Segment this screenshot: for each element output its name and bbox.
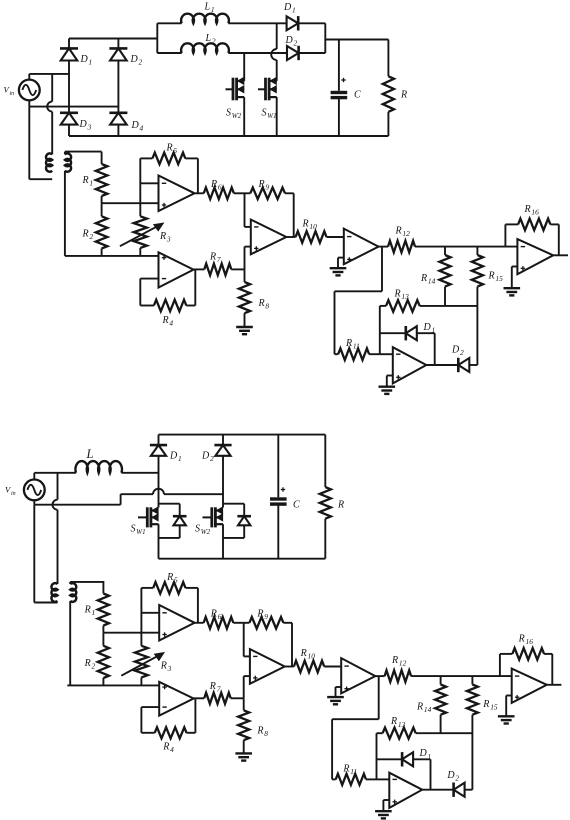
AC source Vin (top circuit) — [19, 80, 40, 101]
label R14 (top) — [420, 273, 436, 286]
wire U2 inverting input (top) — [140, 278, 158, 280]
arrow of R3 (top) — [120, 223, 163, 246]
resistor R4 (bottom) — [141, 699, 195, 739]
diode D2 precision rectifier (top) — [426, 358, 477, 372]
MOSFET Sw1 (top) — [258, 23, 277, 136]
svg-text:R: R — [400, 90, 407, 101]
op-amp U1 (top) — [159, 176, 195, 212]
wire source down to primary (bottom) — [34, 505, 57, 603]
op-amp U4 (top) — [344, 229, 379, 265]
label R8 (bottom) — [256, 725, 268, 738]
label D1 rectifier (bottom) — [419, 748, 432, 761]
label Vin (top) — [4, 85, 15, 98]
potentiometer R3 (top) — [134, 216, 147, 256]
wire feedback/wiper vertical (bottom) — [140, 588, 142, 646]
diode D1 precision rectifier (bottom) — [377, 752, 431, 790]
wire bridge top rail (top) — [69, 38, 157, 40]
op-amp U3 (top) — [251, 220, 286, 255]
resistor R7 (bottom) — [194, 693, 244, 704]
label R2 (bottom) — [84, 658, 96, 671]
wire R13/D1 left vertical (top) — [379, 306, 381, 354]
wire R6 junction down to U3 minus (bottom) — [244, 623, 250, 657]
MOSFET Sw2 (bottom) — [203, 507, 224, 559]
ground under U6 (bottom) — [375, 811, 392, 818]
label D2 rectifier (bottom) — [446, 770, 459, 783]
resistor R1 (bottom) — [98, 581, 109, 633]
resistor R6 (top) — [195, 188, 245, 200]
label D4 bridge — [131, 120, 144, 133]
resistor R6 (bottom) — [195, 617, 244, 629]
label R load (top) — [400, 90, 407, 101]
wire U6 minus input (top) — [380, 353, 393, 355]
label R4 (bottom) — [162, 742, 174, 755]
label Sw2 (top) — [226, 108, 242, 121]
bottom rail (top circuit) — [69, 135, 388, 137]
body diode of Sw2 (bottom) — [223, 504, 251, 538]
resistor R7 (top) — [194, 264, 245, 276]
label R12 (top) — [395, 226, 411, 239]
wire feedback/wiper vertical (top) — [139, 158, 141, 216]
body diode of Sw1 (bottom) — [159, 504, 187, 538]
wire U5 output (bottom) — [547, 684, 562, 686]
resistor R11 (bottom) — [332, 774, 376, 785]
op-amp U5 (top) — [517, 239, 553, 274]
svg-text:C: C — [293, 500, 300, 511]
wire U6 minus input (bottom) — [377, 778, 390, 780]
wire to transformer primary bottom (top) — [29, 178, 52, 180]
op-amp U1 (bottom) — [159, 605, 194, 641]
diode D1 (bottom power) — [150, 435, 167, 508]
wire U3 plus input (top) — [245, 247, 251, 270]
label R9 (top) — [258, 179, 270, 192]
label Sw1 (bottom) — [131, 524, 146, 537]
ground under R8 (top) — [236, 327, 253, 334]
capacitor C (bottom) — [270, 435, 287, 559]
label R6 (bottom) — [210, 609, 222, 622]
ground under U4 (top) — [330, 268, 347, 275]
resistor R10 (bottom) — [285, 661, 342, 673]
wire U3 plus input (bottom) — [244, 676, 250, 698]
resistor R10 (top) — [286, 231, 344, 243]
MOSFET Sw2 (top) — [226, 53, 245, 136]
resistor R13 (top) — [380, 300, 478, 312]
label D2 (bottom power) — [201, 451, 214, 464]
label Vin (bottom) — [5, 485, 16, 498]
wire secondary bottom to node B (bottom) — [69, 601, 71, 685]
wire node A (top) — [102, 202, 159, 204]
resistor R16 (bottom) — [500, 648, 552, 685]
label L (bottom) — [86, 447, 94, 461]
label D1 output (top) — [283, 2, 296, 15]
label D3 bridge — [79, 119, 92, 132]
resistor R12 (bottom) — [375, 670, 511, 682]
resistor R15 (top) — [472, 247, 483, 365]
label L1 — [204, 2, 215, 15]
label R7 (bottom) — [209, 681, 221, 694]
wire source top (bottom) — [34, 473, 76, 480]
transformer primary winding (top) — [46, 153, 52, 171]
potentiometer R3 (bottom) — [135, 646, 148, 686]
label R7 (top) — [209, 252, 221, 265]
wire U6 plus to ground (bottom) — [383, 800, 389, 811]
ground under U4 (bottom) — [327, 697, 344, 704]
wire U1 inverting input (bottom) — [141, 612, 159, 614]
resistor R11 (top) — [335, 348, 380, 360]
label Sw1 (top) — [262, 108, 277, 121]
wire U5 plus to ground (bottom) — [506, 696, 512, 717]
wire R6 junction down to U3 minus (top) — [245, 193, 251, 227]
resistor R9 (top) — [245, 188, 294, 238]
label R2 (top) — [82, 229, 94, 242]
label D2 output (top) — [285, 35, 298, 48]
wire phase to Sw2 leg with hop (bottom) — [121, 489, 223, 494]
resistor R8 (top) — [239, 269, 250, 327]
resistor R8 (bottom) — [238, 698, 249, 753]
label R11 (bottom) — [342, 764, 357, 777]
diode D2 bridge — [109, 39, 127, 113]
label + of C (top) — [341, 78, 345, 82]
diode D1 bridge — [60, 39, 78, 113]
wire jog up to phase node (bottom) — [120, 494, 122, 505]
label R15 (top) — [488, 271, 504, 284]
diode D2 output (top) — [287, 46, 325, 60]
ground under U5 (bottom) — [498, 716, 515, 723]
label R5 (top) — [166, 143, 178, 156]
wire R13/D1 left vertical (bottom) — [376, 733, 378, 779]
resistor R4 (top) — [140, 270, 195, 312]
resistor R load (bottom) — [320, 435, 331, 559]
label R6 (top) — [210, 179, 222, 192]
label D2 rectifier (top) — [451, 345, 464, 358]
label D1 (bottom power) — [169, 451, 182, 464]
wire secondary top to R1 (bottom) — [70, 582, 104, 584]
wire node B (top) — [65, 255, 159, 257]
label R1 (top) — [82, 175, 94, 188]
diode D1 precision rectifier (top) — [380, 326, 435, 365]
wire U6 plus to ground (top) — [387, 376, 393, 387]
resistor R1 (top) — [96, 152, 108, 204]
wire to transformer primary top with hop (top) — [47, 74, 52, 154]
resistor R15 (bottom) — [467, 676, 478, 790]
wire secondary bottom to node B (top) — [64, 171, 66, 256]
resistor R14 (top) — [439, 247, 450, 306]
inductor L (bottom) — [75, 461, 158, 473]
wire node A (bottom) — [103, 632, 159, 634]
wire U5 output (top) — [553, 254, 568, 256]
op-amp U4 (bottom) — [341, 658, 375, 693]
label R13 (top) — [394, 289, 410, 302]
wire U4 plus to ground (top) — [338, 258, 344, 269]
wire U2 inverting input (bottom) — [141, 706, 159, 708]
resistor R2 (bottom) — [98, 633, 109, 686]
resistor R13 (bottom) — [377, 728, 473, 739]
wire secondary top to R1 (top) — [65, 152, 102, 155]
label R13 (bottom) — [390, 716, 406, 729]
label R5 (bottom) — [166, 572, 178, 585]
wire AC to bridge right leg (top) — [29, 106, 118, 108]
op-amp U6 (bottom) — [389, 773, 422, 808]
AC source Vin (bottom circuit) — [24, 480, 45, 501]
label + of C (bottom) — [281, 487, 285, 491]
wire U4 output feedback (bottom) — [332, 676, 379, 779]
wire output rail (top) — [325, 39, 388, 41]
label R4 (top) — [162, 315, 174, 328]
label R3 (top) — [159, 231, 171, 244]
resistor R14 (bottom) — [435, 676, 446, 733]
wire top rail (bottom) — [159, 434, 326, 436]
svg-text:L: L — [86, 447, 94, 461]
label R16 (bottom) — [518, 634, 534, 647]
diode D2 (bottom power) — [214, 435, 231, 508]
label Sw2 (bottom) — [195, 524, 211, 537]
diode D1 output (top) — [287, 16, 326, 30]
transformer primary winding (bottom) — [51, 583, 57, 602]
wire U4 output feedback (top) — [335, 247, 383, 355]
op-amp U6 (top) — [393, 347, 427, 383]
resistor R2 (top) — [96, 203, 108, 256]
label L2 — [205, 33, 216, 46]
label R1 (bottom) — [84, 605, 96, 618]
label D2 bridge — [130, 54, 143, 67]
resistor R load (top) — [383, 40, 394, 137]
label R8 (top) — [258, 298, 270, 311]
ground under R8 (bottom) — [235, 753, 252, 760]
wire top line to primary top with hop (bottom) — [53, 473, 58, 584]
op-amp U5 (bottom) — [512, 669, 547, 703]
resistor R16 (top) — [505, 219, 558, 256]
transformer secondary winding (top) — [65, 153, 71, 171]
inductor L1 — [157, 14, 286, 24]
wire source down-left (top) — [28, 107, 30, 180]
resistor R9 (bottom) — [244, 617, 292, 667]
wire U4 plus to ground (bottom) — [336, 687, 342, 697]
label C (top) — [354, 90, 361, 101]
label R load (bottom) — [337, 500, 344, 511]
transformer secondary winding (bottom) — [70, 583, 76, 602]
op-amp U2 (top) — [159, 252, 194, 287]
label R9 (bottom) — [256, 609, 268, 622]
label D1 bridge — [80, 54, 93, 67]
svg-text:C: C — [354, 90, 361, 101]
label R15 (bottom) — [482, 699, 498, 712]
wire joining output diodes (top) — [324, 23, 326, 53]
wire source bottom (bottom) — [34, 500, 120, 505]
ground under U5 (top) — [504, 288, 521, 295]
arrow of R3 (bottom) — [121, 653, 164, 676]
capacitor C (top) — [331, 40, 348, 137]
resistor R5 (top) — [140, 153, 198, 194]
resistor R5 (bottom) — [141, 582, 198, 623]
wire U1 inverting input (top) — [140, 182, 158, 184]
label D1 rectifier (top) — [423, 322, 436, 335]
wire source-top to bridge (top) — [29, 74, 69, 80]
label R14 (bottom) — [416, 701, 432, 714]
wire node B (bottom) — [67, 684, 159, 686]
diode D2 precision rectifier (bottom) — [422, 783, 472, 797]
resistor R12 (top) — [379, 241, 518, 253]
label R10 (bottom) — [300, 648, 316, 661]
op-amp U3 (bottom) — [250, 649, 285, 684]
label R12 (bottom) — [391, 655, 407, 668]
wire source-bottom node (top) — [28, 100, 30, 106]
bottom rail (bottom circuit) — [159, 558, 326, 560]
label R10 (top) — [302, 219, 318, 232]
label C (bottom) — [293, 500, 300, 511]
label R16 (top) — [524, 204, 540, 217]
diode D3 bridge — [60, 113, 78, 136]
wire U5 plus to ground (top) — [512, 267, 518, 289]
ground under U6 (top) — [379, 387, 396, 394]
MOSFET Sw1 (bottom) — [138, 507, 159, 559]
diode D4 bridge — [109, 113, 127, 136]
label R11 (top) — [345, 338, 360, 351]
svg-text:R: R — [337, 500, 344, 511]
wire bridge to inductors (top) — [156, 23, 158, 53]
op-amp U2 (bottom) — [159, 682, 193, 716]
inductor L2 — [157, 43, 287, 53]
label R3 (bottom) — [160, 661, 172, 674]
